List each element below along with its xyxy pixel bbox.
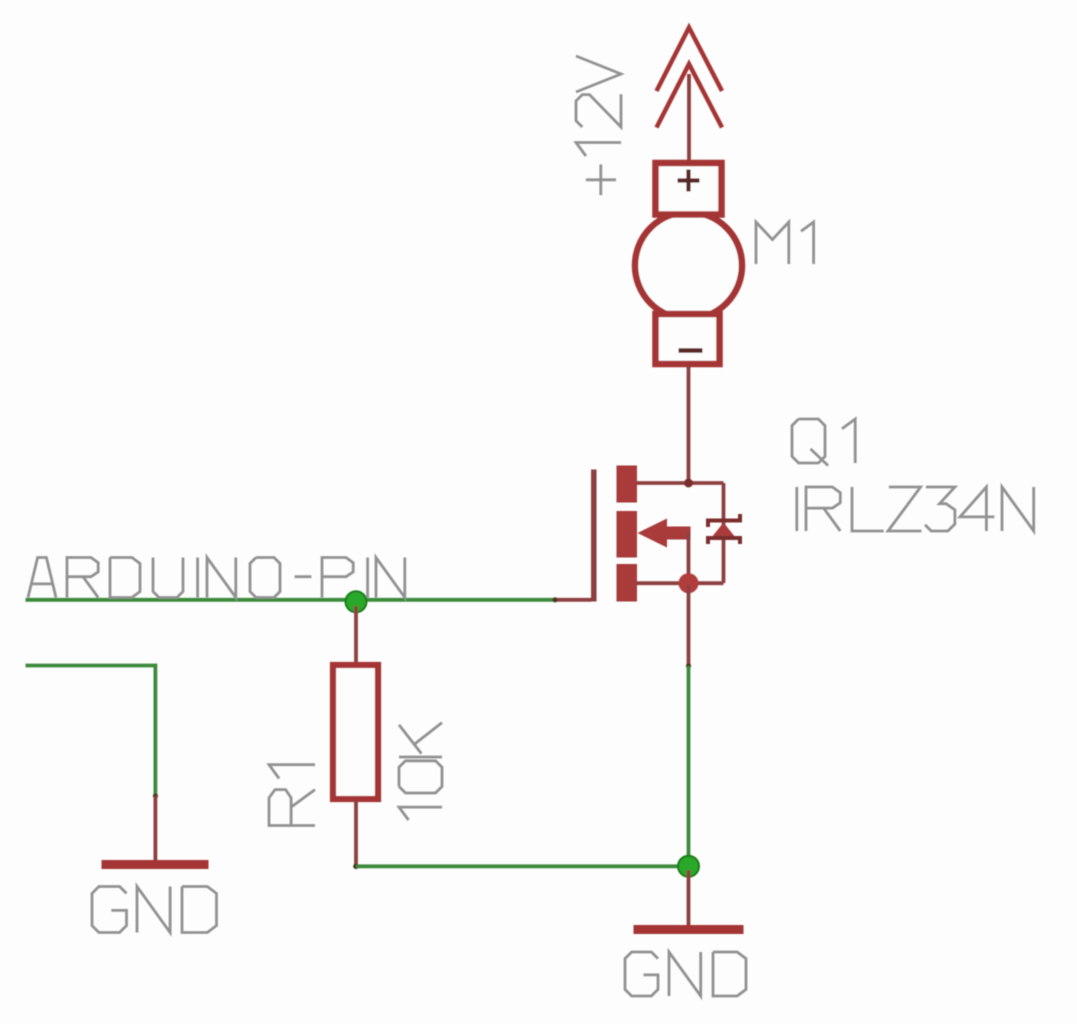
supply +12V bbox=[657, 28, 723, 128]
drain pin dot bbox=[684, 479, 693, 488]
wire source net down bbox=[687, 666, 691, 866]
gate pin bbox=[554, 598, 592, 602]
label R1 bbox=[269, 765, 315, 826]
transistor Q1 bbox=[554, 466, 740, 602]
ground GND left bbox=[102, 860, 209, 869]
channel segments bbox=[617, 466, 638, 602]
pin end dot R1 bbox=[353, 864, 359, 870]
wire R1 to source net bbox=[356, 864, 689, 868]
body diode cathode bar bbox=[708, 514, 740, 527]
wire left GND pin bbox=[153, 796, 157, 861]
wire net ARDUINO-PIN bbox=[26, 598, 557, 602]
wire R1 bottom pin bbox=[354, 799, 358, 866]
label GND left bbox=[92, 887, 217, 933]
wire source pin bbox=[687, 585, 691, 668]
source pin junction dot bbox=[679, 573, 699, 593]
ground GND bottom bbox=[634, 925, 744, 934]
label +12V bbox=[576, 56, 621, 195]
node gate junction bbox=[346, 591, 367, 612]
gate bar bbox=[591, 470, 597, 602]
label ARDUINO-PIN bbox=[28, 558, 405, 598]
substrate arrow bbox=[666, 527, 691, 540]
pin end dot gate bbox=[552, 597, 557, 602]
wire left net vertical bbox=[153, 664, 157, 796]
body diode triangle bbox=[712, 523, 736, 538]
wire junction to R1 bbox=[354, 606, 358, 664]
drain connection bbox=[637, 481, 724, 485]
wire +12V stem to motor bbox=[687, 74, 691, 162]
label Q1 bbox=[792, 419, 855, 466]
label M1 bbox=[756, 222, 814, 264]
node source junction bbox=[678, 856, 699, 877]
pin end dot left bbox=[153, 793, 158, 798]
wire junction to GND bbox=[687, 870, 691, 926]
label 10K bbox=[399, 723, 442, 820]
source connection bbox=[637, 581, 724, 585]
arrow to source wire bbox=[687, 533, 691, 583]
motor M1 bbox=[635, 163, 742, 364]
body diode anode bar bbox=[708, 538, 740, 544]
label IRLZ34N bbox=[797, 487, 1034, 531]
wire M1 minus to Q1 drain bbox=[687, 366, 691, 483]
pin end dot source bbox=[686, 663, 691, 668]
resistor R1 bbox=[333, 665, 378, 799]
body diode branch bbox=[722, 483, 726, 583]
wire left net horizontal bbox=[26, 664, 158, 668]
label GND bottom bbox=[625, 952, 746, 996]
